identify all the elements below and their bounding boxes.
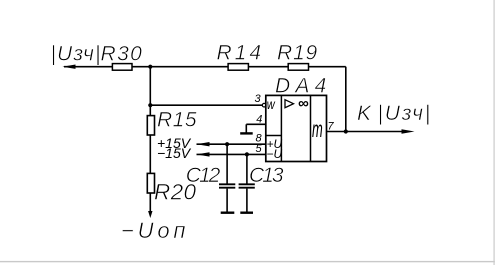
svg-text:|Uзч|: |Uзч| — [378, 102, 433, 125]
resistor R30 — [112, 64, 132, 71]
svg-text:4: 4 — [256, 113, 262, 125]
svg-text:∞: ∞ — [298, 95, 309, 112]
page border bottom — [0, 261, 495, 262]
resistor R14 — [228, 64, 248, 71]
svg-text:R19: R19 — [277, 42, 318, 65]
svg-text:m: m — [312, 116, 323, 142]
arrow -15V — [197, 152, 210, 156]
ground bar — [240, 132, 253, 134]
resistor R19 — [288, 64, 308, 71]
junction node at pin3 wire — [148, 103, 152, 107]
svg-text:|Uзч|: |Uзч| — [51, 43, 102, 66]
wire: input node vertical — [149, 67, 151, 212]
svg-text:3: 3 — [255, 93, 262, 105]
input arrow |Uзч| — [62, 65, 75, 69]
svg-text:R15: R15 — [157, 109, 197, 132]
junction node output — [344, 129, 348, 133]
capacitor C12 — [186, 144, 236, 213]
wire: pin 3 input — [150, 104, 262, 106]
resistor R20 — [147, 173, 154, 193]
svg-text:R30: R30 — [101, 43, 144, 66]
svg-text:−Uоп: −Uоп — [121, 218, 189, 243]
svg-text:7: 7 — [328, 121, 335, 133]
wire: main top horizontal — [64, 66, 346, 68]
svg-text:w: w — [267, 97, 276, 112]
inversion circle pin 3 — [262, 103, 266, 107]
ground lead — [245, 124, 247, 132]
junction node C13 — [245, 152, 249, 156]
svg-text:−15V: −15V — [157, 145, 192, 161]
svg-text:C12: C12 — [186, 164, 221, 187]
svg-text:C13: C13 — [249, 164, 284, 187]
svg-text:K: K — [357, 102, 372, 125]
arrow +15V — [197, 142, 210, 146]
wire: +15V to pin 8 — [197, 143, 266, 145]
capacitor C13 — [239, 154, 284, 212]
wire: feedback from R19 down to output — [345, 67, 347, 132]
svg-text:R14: R14 — [217, 42, 265, 65]
wire: output pin 7 — [327, 131, 407, 133]
wire: pin 4 — [246, 123, 265, 125]
op-amp DA4 body — [266, 75, 332, 162]
op-amp triangle symbol — [285, 100, 294, 108]
svg-text:−U: −U — [267, 147, 283, 161]
resistor R15 — [147, 116, 154, 135]
junction node C12 — [225, 142, 229, 146]
arrow down to -Uоп — [148, 211, 152, 218]
page border right — [493, 0, 494, 265]
output arrow — [402, 129, 415, 133]
junction node at top wire — [148, 65, 152, 69]
svg-text:5: 5 — [256, 143, 263, 155]
wire: -15V to pin 5 — [197, 153, 266, 155]
